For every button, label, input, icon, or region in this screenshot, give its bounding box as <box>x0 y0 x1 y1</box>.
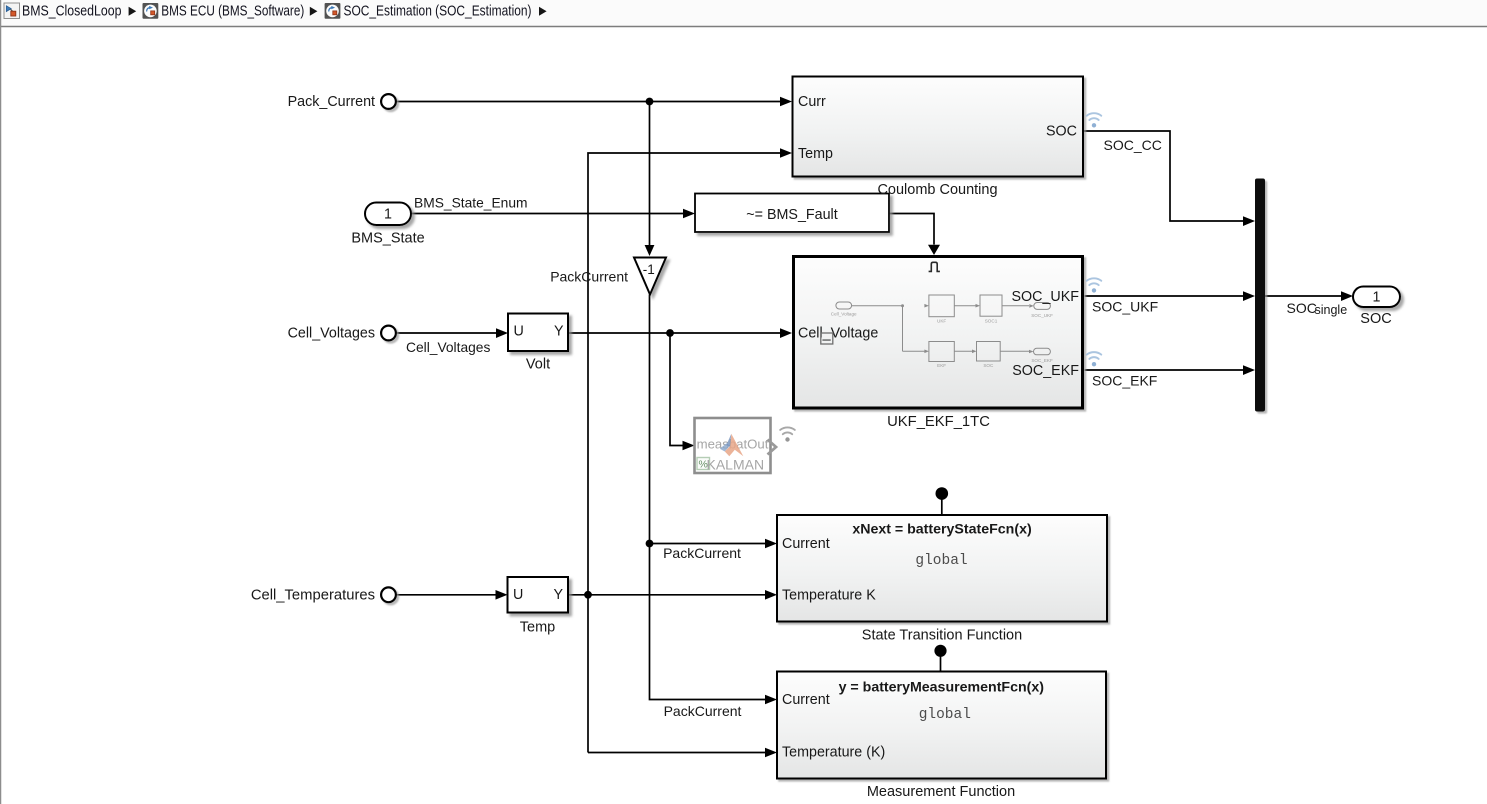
svg-text:Cell_Temperatures: Cell_Temperatures <box>251 588 375 604</box>
svg-text:Coulomb Counting: Coulomb Counting <box>877 182 997 198</box>
arrowhead into MF Temperature (K) <box>765 748 777 758</box>
arrowhead into gain <box>645 245 655 256</box>
svg-text:Y: Y <box>554 324 564 340</box>
wire mux output to SOC outport <box>1265 295 1342 297</box>
wire SOC_CC to mux <box>1084 131 1245 221</box>
arrowhead into Coulomb Temp <box>780 148 792 158</box>
wire branch to KALMAN block <box>670 333 683 446</box>
subsystem UKF_EKF_1TC <box>794 257 1083 409</box>
svg-text:Measurement Function: Measurement Function <box>867 784 1015 800</box>
arrowhead into MF Current <box>765 695 777 705</box>
arrowhead into UKF Cell_Voltage <box>780 328 792 338</box>
wire branch to State Transition Current <box>650 543 767 545</box>
matlab logo <box>720 443 730 451</box>
gain -1 triangle <box>634 258 666 295</box>
wire temp branch to Measurement Temperature (K) <box>588 752 766 754</box>
svg-text:PackCurrent: PackCurrent <box>550 269 628 285</box>
svg-text:global: global <box>919 707 971 723</box>
arrowhead SOC_EKF into mux <box>1243 365 1255 375</box>
separator 1 <box>129 7 137 16</box>
svg-text:SOC_Estimation (SOC_Estimation: SOC_Estimation (SOC_Estimation) <box>344 4 532 20</box>
svg-text:Volt: Volt <box>526 356 550 372</box>
wire temperature trunk vertical <box>588 153 781 753</box>
svg-text:Temp: Temp <box>520 620 555 636</box>
model icon 1 <box>4 3 20 19</box>
svg-text:KALMAN: KALMAN <box>707 457 765 473</box>
svg-text:1: 1 <box>384 207 392 223</box>
svg-text:Cell_Voltages: Cell_Voltages <box>288 326 375 342</box>
function port dot State Transition <box>936 487 949 500</box>
stub function port Measurement <box>940 651 942 672</box>
junction Pack_Current <box>646 98 654 106</box>
svg-text:Temp: Temp <box>798 146 833 162</box>
trigger pulse symbol <box>929 262 940 271</box>
wire fault compare to UKF trigger <box>890 214 935 245</box>
stub function port State Transition <box>941 494 943 515</box>
separator 2 <box>310 7 318 16</box>
wire Pack_Current to Coulomb Curr <box>396 101 781 103</box>
arrowhead SOC_CC into mux <box>1243 216 1255 226</box>
wire SOC_UKF to mux <box>1085 295 1245 297</box>
svg-text:~= BMS_Fault: ~= BMS_Fault <box>746 207 837 223</box>
output chevron <box>768 440 777 455</box>
inport circle Pack_Current <box>381 94 396 109</box>
function port dot Measurement <box>934 645 946 657</box>
selector block Volt <box>508 314 568 352</box>
svg-text:SOC_UKF: SOC_UKF <box>1011 289 1079 305</box>
function block State Transition <box>777 515 1107 622</box>
bus element port icon <box>821 333 833 344</box>
svg-text:SOC_EKF: SOC_EKF <box>1012 363 1079 379</box>
arrowhead SOC_UKF into mux <box>1243 291 1255 301</box>
svg-text:Cell_Voltages: Cell_Voltages <box>406 340 490 355</box>
svg-text:SOC_EKF: SOC_EKF <box>1092 372 1157 388</box>
svg-text:U: U <box>514 324 524 340</box>
arrowhead into SOC outport <box>1341 291 1353 301</box>
svg-text:1: 1 <box>1373 289 1381 305</box>
logging badge SOC_UKF <box>1087 278 1102 292</box>
svg-text:y = batteryMeasurementFcn(x): y = batteryMeasurementFcn(x) <box>839 680 1045 696</box>
wire Cell_Temperatures to Temp <box>396 594 496 596</box>
outport SOC pill <box>1353 287 1400 308</box>
wire SOC_EKF to mux <box>1085 369 1245 371</box>
subsystem icon 2 <box>143 3 159 19</box>
mux <box>1255 179 1265 412</box>
inport BMS_State pill <box>365 203 411 226</box>
arrowhead into Volt <box>496 328 508 338</box>
function block Measurement <box>777 672 1106 779</box>
wire junction branch down to gain <box>649 102 651 247</box>
svg-text:Curr: Curr <box>798 94 826 110</box>
arrowhead into UKF trigger <box>928 245 940 255</box>
arrowhead into STF Current <box>765 539 777 549</box>
subsystem icon 3 <box>325 3 341 19</box>
svg-text:UKF: UKF <box>937 319 946 324</box>
wire Volt Y output to UKF Cell_Voltage <box>569 332 782 334</box>
selector block Temp <box>508 577 569 613</box>
wire Cell_Voltages to Volt <box>396 332 497 334</box>
arrowhead into fault compare <box>683 209 695 219</box>
wire BMS_State to fault compare <box>411 213 684 215</box>
svg-text:EKF: EKF <box>937 363 946 368</box>
separator 3 <box>539 7 547 16</box>
junction Temp split <box>584 591 592 599</box>
svg-text:Current: Current <box>782 536 830 552</box>
svg-text:global: global <box>915 553 967 569</box>
arrowhead into Temp <box>496 590 508 600</box>
svg-text:PackCurrent: PackCurrent <box>663 545 741 561</box>
svg-text:SOC_UKF: SOC_UKF <box>1031 313 1053 318</box>
svg-text:BMS_ClosedLoop: BMS_ClosedLoop <box>22 4 122 20</box>
svg-text:BMS ECU (BMS_Software): BMS ECU (BMS_Software) <box>161 4 304 20</box>
svg-text:Cell_Voltage: Cell_Voltage <box>831 311 857 316</box>
svg-text:Y: Y <box>553 587 563 603</box>
junction Cell_Voltage split <box>666 329 674 337</box>
svg-text:Pack_Current: Pack_Current <box>288 94 375 110</box>
UKF inner mini diagram <box>836 295 1051 362</box>
svg-text:SOC: SOC <box>1046 124 1077 140</box>
junction PackCurrent split <box>646 540 654 548</box>
inport circle Cell_Voltages <box>381 326 396 341</box>
commented To Workspace KALMAN <box>695 418 777 473</box>
svg-text:single: single <box>1315 303 1348 317</box>
logging badge KALMAN <box>780 427 795 441</box>
logging badge SOC_EKF <box>1087 352 1102 366</box>
wire Temp Y output <box>569 594 767 596</box>
svg-text:State Transition Function: State Transition Function <box>862 627 1022 643</box>
svg-text:Cell_Voltage: Cell_Voltage <box>798 326 878 342</box>
compare block ~= BMS_Fault <box>695 194 889 233</box>
wire gain output down <box>650 295 767 700</box>
arrowhead into KALMAN <box>683 441 695 451</box>
svg-text:BMS_State: BMS_State <box>351 231 424 247</box>
inport circle Cell_Temperatures <box>381 587 396 602</box>
svg-text:Temperature K: Temperature K <box>782 588 876 604</box>
svg-text:UKF_EKF_1TC: UKF_EKF_1TC <box>887 414 990 430</box>
svg-text:BMS_State_Enum: BMS_State_Enum <box>414 196 528 211</box>
arrowhead into STF Temperature K <box>765 590 777 600</box>
svg-text:SOC: SOC <box>1360 311 1391 327</box>
comment badge <box>697 458 710 470</box>
svg-text:SOC_CC: SOC_CC <box>1104 137 1162 153</box>
svg-text:xNext = batteryStateFcn(x): xNext = batteryStateFcn(x) <box>852 521 1032 537</box>
svg-text:PackCurrent: PackCurrent <box>664 703 742 719</box>
svg-text:Temperature (K): Temperature (K) <box>782 745 885 761</box>
svg-text:SOC_UKF: SOC_UKF <box>1092 299 1158 315</box>
svg-text:SOC: SOC <box>1287 300 1317 316</box>
svg-text:SOC: SOC <box>983 363 994 368</box>
arrowhead into Coulomb Curr <box>780 97 792 107</box>
logging badge SOC_CC <box>1087 113 1102 127</box>
subsystem Coulomb Counting <box>793 77 1084 177</box>
svg-text:Current: Current <box>782 692 830 708</box>
svg-text:SOC1: SOC1 <box>985 319 998 324</box>
svg-text:U: U <box>513 587 523 603</box>
svg-text:-1: -1 <box>643 262 655 277</box>
